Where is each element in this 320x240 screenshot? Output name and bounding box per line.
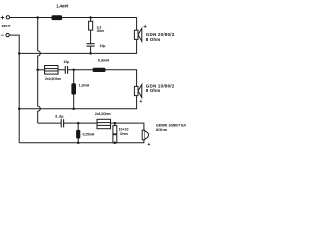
svg-text:+: + <box>147 142 150 148</box>
svg-text:10µ: 10µ <box>100 44 106 48</box>
svg-text:2x3,9Ohm: 2x3,9Ohm <box>45 77 61 81</box>
svg-text:Ohm: Ohm <box>97 29 105 33</box>
svg-text:+: + <box>0 15 4 22</box>
svg-text:1,3mH: 1,3mH <box>79 84 90 88</box>
svg-text:INPUT: INPUT <box>2 24 11 28</box>
svg-text:+: + <box>139 99 142 105</box>
svg-text:8Ohm: 8Ohm <box>156 127 168 132</box>
svg-text:8 Ohm: 8 Ohm <box>146 88 161 93</box>
svg-text:0,3mH: 0,3mH <box>98 58 110 63</box>
svg-text:0,25mH: 0,25mH <box>83 132 95 136</box>
svg-text:+: + <box>143 25 147 31</box>
svg-text:3,3µ: 3,3µ <box>55 113 64 118</box>
svg-text:10µ: 10µ <box>63 60 69 64</box>
svg-text:1,4mH: 1,4mH <box>56 4 68 9</box>
svg-text:2x3,3Ohm: 2x3,3Ohm <box>95 112 111 116</box>
svg-text:8 Ohm: 8 Ohm <box>146 37 161 42</box>
svg-text:Ohm: Ohm <box>120 132 128 136</box>
